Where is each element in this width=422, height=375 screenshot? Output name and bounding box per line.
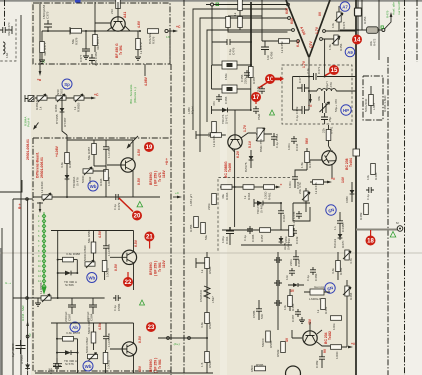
svg-text:220k: 220k xyxy=(207,203,211,210)
svg-text:1.5: 1.5 xyxy=(200,362,204,367)
node dot xyxy=(206,337,208,339)
capacitor C476 xyxy=(212,39,251,55)
node xyxy=(85,30,87,32)
wire 212 down xyxy=(211,42,213,65)
svg-text:R464: R464 xyxy=(247,192,251,200)
svg-text:1k R394: 1k R394 xyxy=(40,181,44,193)
faint horizontal rule y=253 xyxy=(0,252,422,254)
svg-text:220n: 220n xyxy=(289,259,293,266)
stage3 resistor R584 xyxy=(87,318,96,350)
wire stub xyxy=(195,131,197,139)
svg-text:6.5V: 6.5V xyxy=(134,239,138,247)
red circle 21 with stem xyxy=(144,232,154,249)
svg-text:47n: 47n xyxy=(212,101,216,106)
capacitor C475 xyxy=(321,117,332,124)
svg-text:20: 20 xyxy=(134,214,141,220)
svg-text:L484 μH: L484 μH xyxy=(189,194,193,206)
diode row Si465 xyxy=(254,199,282,214)
svg-text:1n C588B: 1n C588B xyxy=(107,333,111,347)
chassis dash-dot line right xyxy=(387,57,389,375)
svg-text:5μF C588: 5μF C588 xyxy=(11,343,15,357)
ceramic filter F482 xyxy=(212,85,251,104)
bus cap 2 xyxy=(274,280,282,286)
capacitor C445 xyxy=(292,211,302,226)
svg-text:C449: C449 xyxy=(295,236,299,244)
svg-text:R585: R585 xyxy=(269,340,273,348)
trimmer R484 xyxy=(343,280,353,305)
svg-text:R465: R465 xyxy=(374,172,378,180)
tap arrow down xyxy=(37,202,43,213)
wire from box down xyxy=(144,64,146,76)
chassis dash-dot line far right xyxy=(404,0,406,375)
capacitor C584 xyxy=(86,298,97,322)
stage3 trimmer R592 xyxy=(85,337,98,361)
svg-text:L597: L597 xyxy=(211,296,215,303)
svg-text:1k R466: 1k R466 xyxy=(212,135,216,147)
node xyxy=(94,30,96,32)
resistor R487 xyxy=(244,67,257,85)
left frame corner box xyxy=(0,180,22,375)
trimmer C447 xyxy=(298,182,310,212)
arrow +C mid xyxy=(173,191,182,198)
resistor R446 with arrow xyxy=(310,177,335,194)
capacitor C480 xyxy=(256,86,265,94)
output node circle xyxy=(165,29,168,32)
wire rail y98 xyxy=(35,97,92,99)
capacitor C456 xyxy=(261,41,274,60)
svg-text:11: 11 xyxy=(42,60,45,64)
svg-text:Wb: Wb xyxy=(85,364,92,369)
svg-text:1000Ω: 1000Ω xyxy=(107,176,111,186)
svg-text:18: 18 xyxy=(367,239,374,245)
trimmer R382A xyxy=(35,94,47,110)
wire xyxy=(93,166,106,171)
output arrow +C xyxy=(168,25,181,32)
svg-text:R482: R482 xyxy=(339,267,343,275)
V right arm xyxy=(309,0,330,57)
V terminal circles right xyxy=(320,30,326,41)
stage2 capacitor C569 xyxy=(103,231,111,262)
output resistor R376 xyxy=(148,29,159,44)
svg-text:+: + xyxy=(280,183,282,187)
svg-text:540: 540 xyxy=(260,314,264,319)
resistor R585b xyxy=(261,331,273,348)
transistor Tr466 xyxy=(228,133,256,152)
capacitor C391 xyxy=(103,140,111,166)
lower rail B xyxy=(241,244,292,246)
svg-text:0.1μ: 0.1μ xyxy=(243,235,247,241)
svg-text:L483: L483 xyxy=(372,103,376,110)
wire bottom left xyxy=(13,297,33,299)
stage3 electrolytic C588b xyxy=(47,358,62,372)
svg-text:Q7V: Q7V xyxy=(309,40,313,48)
stage2 resistor R589 xyxy=(87,229,96,261)
zener D466 xyxy=(244,150,253,172)
left dash-dot stub xyxy=(4,0,6,26)
open terminal circle xyxy=(382,29,385,32)
svg-text:R461: R461 xyxy=(268,192,272,200)
bus cap 3 xyxy=(274,300,282,306)
svg-text:10k: 10k xyxy=(366,175,370,180)
svg-text:C586: C586 xyxy=(117,303,121,311)
resistor R456 xyxy=(201,223,208,241)
svg-text:0.5V: 0.5V xyxy=(138,335,142,343)
partial transistor bottom edge xyxy=(286,366,301,375)
green pin numbers xyxy=(38,215,41,283)
resistor R378 xyxy=(70,27,82,45)
svg-text:4.6V: 4.6V xyxy=(137,20,141,28)
capacitor C377 with ground xyxy=(79,31,90,62)
svg-text:4.7k: 4.7k xyxy=(349,258,353,264)
coil L597 xyxy=(199,286,215,303)
capacitor C470 xyxy=(0,26,12,34)
blue circle HP xyxy=(341,105,351,115)
svg-text:17: 17 xyxy=(253,95,260,101)
wire left filter2 xyxy=(211,65,213,89)
svg-text:15: 15 xyxy=(331,68,338,74)
coil L482 xyxy=(304,285,330,301)
resistor R455 xyxy=(189,217,198,233)
resistor R595 xyxy=(200,258,212,275)
svg-text:Ab: Ab xyxy=(72,325,78,330)
svg-text:22k: 22k xyxy=(322,128,326,133)
svg-text:R382B: R382B xyxy=(77,103,81,112)
svg-text:1000Ω: 1000Ω xyxy=(106,267,110,277)
svg-text:6.2V: 6.2V xyxy=(236,150,240,158)
right board edge line xyxy=(355,0,357,375)
svg-text:BF459G: BF459G xyxy=(149,262,153,275)
svg-text:C463: C463 xyxy=(282,214,286,222)
wire top entry xyxy=(66,135,68,197)
stage2 resistor R591 xyxy=(102,261,109,281)
svg-text:( BF 259 ): ( BF 259 ) xyxy=(154,358,158,373)
Differenz-Baustein box (dash-dot) xyxy=(33,138,171,371)
dash-dot component box L483 xyxy=(363,76,383,120)
red circle 18 with stem xyxy=(366,230,376,246)
emitter drop wire xyxy=(234,149,236,227)
stage2 left rail xyxy=(57,231,59,299)
svg-text:C483: C483 xyxy=(224,96,228,104)
V apex wire down xyxy=(308,56,310,64)
svg-text:BNR-754: BNR-754 xyxy=(259,139,263,152)
AGC dashed box xyxy=(218,178,290,253)
resistor row R464 xyxy=(243,185,264,200)
svg-text:19: 19 xyxy=(146,145,153,151)
red label BC234 xyxy=(324,331,332,344)
red circle 23 xyxy=(146,322,156,332)
vertical feed wire xyxy=(206,252,208,373)
svg-text:Si 566: Si 566 xyxy=(65,283,74,287)
svg-text:Tr 391: Tr 391 xyxy=(119,45,123,55)
svg-text:500Ω R592: 500Ω R592 xyxy=(85,337,89,353)
svg-text:3.3k: 3.3k xyxy=(256,86,260,92)
capacitor C471 xyxy=(306,66,321,80)
svg-text:1n: 1n xyxy=(333,226,337,230)
resistor R443 xyxy=(300,148,312,170)
node xyxy=(61,97,63,99)
svg-text:+8·+: +8·+ xyxy=(165,158,169,165)
IF bus vertical xyxy=(250,2,252,78)
svg-text:C483: C483 xyxy=(297,259,301,267)
resistor R459 xyxy=(279,39,290,53)
svg-text:+#: +# xyxy=(331,177,335,181)
svg-text:C471: C471 xyxy=(317,66,321,74)
svg-text:L348GJ: L348GJ xyxy=(309,297,320,301)
capacitor C448B xyxy=(333,212,345,232)
svg-text:R597: R597 xyxy=(208,321,212,329)
svg-text:C456: C456 xyxy=(270,51,274,59)
svg-text:25p: 25p xyxy=(328,117,332,122)
svg-text:R391: R391 xyxy=(68,160,72,168)
svg-text:R479: R479 xyxy=(386,10,390,18)
svg-text:L476: L476 xyxy=(329,82,333,89)
blue circle A7 xyxy=(340,2,350,12)
svg-text:3.3k R578: 3.3k R578 xyxy=(66,331,80,335)
svg-text:( BF 259 ): ( BF 259 ) xyxy=(154,261,158,276)
bottom rail xyxy=(35,372,213,374)
wire base vertical xyxy=(94,2,96,23)
red label BC238 xyxy=(345,158,353,170)
small box 220k xyxy=(207,194,216,211)
svg-text:C442: C442 xyxy=(295,143,299,151)
node circle 2 xyxy=(188,337,191,340)
svg-text:R444 - MW: R444 - MW xyxy=(21,305,25,321)
node circle 1 xyxy=(167,337,170,340)
svg-text:210: 210 xyxy=(110,9,114,14)
IF right rails xyxy=(358,0,362,44)
green test triangle M xyxy=(390,232,396,238)
svg-text:+#: +# xyxy=(351,342,355,346)
input node circle xyxy=(211,3,214,6)
green test triangle xyxy=(140,300,145,305)
svg-text:Wb: Wb xyxy=(88,276,95,281)
resistor R481 xyxy=(316,299,328,315)
node xyxy=(47,30,49,32)
svg-text:0.5V: 0.5V xyxy=(137,177,141,185)
svg-text:1k R446: 1k R446 xyxy=(314,182,318,194)
svg-text:0.5V: 0.5V xyxy=(114,263,118,271)
gray bus wire with terminal xyxy=(356,221,403,231)
node xyxy=(26,297,29,300)
capacitor C484 xyxy=(285,268,295,280)
apex wire down to rail xyxy=(308,56,310,77)
stage2 mid rail xyxy=(33,297,105,299)
resistor R447 xyxy=(284,226,293,244)
svg-text:10k: 10k xyxy=(331,23,335,28)
svg-text:64V: 64V xyxy=(285,7,289,14)
red circle 14 xyxy=(352,35,362,45)
svg-text:( BF 259 ): ( BF 259 ) xyxy=(154,171,158,186)
mid dash-dot vertical x184 xyxy=(183,0,185,375)
diode Si464 xyxy=(279,236,291,250)
green pin mark D xyxy=(216,3,219,6)
svg-text:R486: R486 xyxy=(291,303,295,311)
main rail y197 xyxy=(33,196,160,198)
resistor R472 xyxy=(367,27,379,46)
svg-text:C585: C585 xyxy=(252,310,256,318)
svg-text:110V: 110V xyxy=(162,260,166,268)
emitter junction dot xyxy=(234,186,236,188)
svg-text:10k: 10k xyxy=(283,305,287,310)
svg-text:9V: 9V xyxy=(323,348,327,353)
trimmer R383 xyxy=(54,94,66,112)
svg-text:220k: 220k xyxy=(284,236,288,243)
svg-text:+C: +C xyxy=(176,25,181,29)
capacitor C477 xyxy=(297,75,309,92)
svg-text:Si 476: Si 476 xyxy=(76,177,80,186)
svg-text:(Oberes L.): (Oberes L.) xyxy=(133,87,137,103)
red circle 17 with stem xyxy=(251,92,261,104)
wire vertical with arrow out of box xyxy=(39,2,42,76)
IF bus 2 vertical xyxy=(261,0,263,41)
svg-text:1.5k: 1.5k xyxy=(300,162,304,168)
red circle 16 with stem xyxy=(258,74,275,89)
resistor R379 xyxy=(135,31,143,60)
stage3 resistor R578 xyxy=(56,331,80,353)
svg-text:56k: 56k xyxy=(204,235,208,240)
svg-text:BF459G: BF459G xyxy=(149,359,153,372)
pot R493 top xyxy=(343,250,353,264)
capacitor C585b xyxy=(252,300,264,320)
resistor R597 xyxy=(200,313,212,330)
trimmer R386 xyxy=(39,282,51,302)
diode D587 xyxy=(20,354,30,370)
resistor row R463 xyxy=(220,185,243,200)
bus cap 1 xyxy=(274,257,282,263)
capacitor C381 xyxy=(89,51,98,66)
dashed tuner box left xyxy=(0,19,16,61)
top right solid line xyxy=(378,0,380,60)
svg-text:R472: R472 xyxy=(373,38,377,46)
resistor R482 xyxy=(331,252,343,280)
base resistor R466 xyxy=(196,133,226,147)
resistor R391 xyxy=(60,153,72,169)
svg-text:21: 21 xyxy=(146,235,153,241)
svg-text:13: 13 xyxy=(166,35,170,39)
svg-text:3.3k: 3.3k xyxy=(60,162,64,168)
node xyxy=(66,196,68,198)
svg-text:C587: C587 xyxy=(68,313,72,321)
svg-text:R456: R456 xyxy=(339,43,343,51)
svg-text:Wb: Wb xyxy=(90,184,97,189)
svg-text:C379: C379 xyxy=(117,202,121,210)
svg-text:560Ω R584: 560Ω R584 xyxy=(87,318,91,334)
trimmer R474 xyxy=(331,6,346,31)
box right edge wire xyxy=(169,33,171,64)
diode D481 xyxy=(288,283,304,293)
left branch wire xyxy=(292,77,294,111)
svg-text:3.3k: 3.3k xyxy=(331,268,335,274)
svg-text:0.1μ: 0.1μ xyxy=(306,275,310,281)
svg-text:Tr464: Tr464 xyxy=(349,158,353,167)
svg-text:R376: R376 xyxy=(152,36,156,44)
node xyxy=(250,64,252,66)
svg-text:14: 14 xyxy=(354,38,361,44)
svg-text:0V: 0V xyxy=(318,11,322,16)
svg-text:C476: C476 xyxy=(232,47,236,55)
svg-text:166: 166 xyxy=(5,53,9,58)
svg-text:0480: 0480 xyxy=(345,196,349,203)
capacitor C483 xyxy=(289,250,301,267)
capacitor C463 xyxy=(278,203,286,230)
svg-text:0.1μ: 0.1μ xyxy=(366,194,370,200)
svg-text:56000: 56000 xyxy=(261,338,265,347)
trimmer R382B xyxy=(73,94,84,112)
svg-text:1.5k: 1.5k xyxy=(328,44,332,50)
svg-text:4V: 4V xyxy=(285,337,289,342)
svg-text:56V: 56V xyxy=(305,137,309,144)
red label BF459G stage3 xyxy=(149,260,166,276)
main emitter rail xyxy=(42,30,140,32)
svg-text:100n: 100n xyxy=(288,181,292,188)
svg-text:3.3k: 3.3k xyxy=(200,322,204,328)
node xyxy=(139,30,141,32)
red 22 circle with stem xyxy=(123,272,133,287)
small resistor R450 xyxy=(233,0,242,16)
svg-text:56k R589: 56k R589 xyxy=(87,229,91,243)
capacitor C482b xyxy=(253,106,261,120)
resistor R487b xyxy=(331,316,342,330)
diode DY87 xyxy=(55,98,67,135)
svg-text:R598: R598 xyxy=(208,360,212,368)
left scan edge smudge xyxy=(0,248,1,375)
resistor R483 xyxy=(364,86,376,114)
node xyxy=(308,90,310,92)
svg-text:C373: C373 xyxy=(46,11,50,19)
svg-text:4.08V: 4.08V xyxy=(144,76,148,86)
svg-text:390 R371: 390 R371 xyxy=(43,42,47,56)
svg-text:R481: R481 xyxy=(324,306,328,314)
svg-text:56k R387: 56k R387 xyxy=(87,146,91,160)
svg-text:100Ω: 100Ω xyxy=(335,351,339,359)
loop wire xyxy=(293,203,310,221)
blue circle BN xyxy=(326,205,336,215)
red circle 20 with stem xyxy=(119,198,143,221)
svg-text:R463: R463 xyxy=(225,192,229,200)
svg-text:R457: R457 xyxy=(260,234,264,242)
blue ink mark top xyxy=(75,0,81,3)
connector box P453 xyxy=(355,8,368,24)
svg-text:R453: R453 xyxy=(363,16,367,24)
nested shield corner 3 xyxy=(207,30,292,122)
resistor R489 xyxy=(359,204,368,221)
bent arrow out top right xyxy=(385,12,393,29)
wires into right terminals xyxy=(322,31,356,39)
svg-text:+C: +C xyxy=(94,93,99,97)
svg-text:C489: C489 xyxy=(315,360,319,368)
transistor Tr391 xyxy=(95,16,140,31)
svg-text:D470: D470 xyxy=(341,240,345,248)
lower rail A xyxy=(222,229,290,231)
svg-text:45V: 45V xyxy=(138,365,142,372)
svg-text:G -+: G -+ xyxy=(5,281,11,285)
svg-text:C455: C455 xyxy=(240,74,244,82)
svg-text:50μH: 50μH xyxy=(191,107,195,114)
detector diode DY471 xyxy=(221,108,229,124)
node dot xyxy=(357,29,359,31)
svg-text:118V: 118V xyxy=(162,170,166,178)
svg-text:100k: 100k xyxy=(332,323,336,330)
node xyxy=(57,297,59,299)
electrolytic C466 xyxy=(221,227,234,245)
green connector chain xyxy=(42,212,46,294)
ceramic filter F481 xyxy=(212,61,251,80)
variable inductor L464 xyxy=(256,128,272,152)
svg-text:R599: R599 xyxy=(276,349,280,357)
svg-text:Tr 581: Tr 581 xyxy=(158,359,162,369)
stage3 resistor R593 xyxy=(103,350,110,373)
stage2 transistor Tr471 xyxy=(110,231,137,291)
